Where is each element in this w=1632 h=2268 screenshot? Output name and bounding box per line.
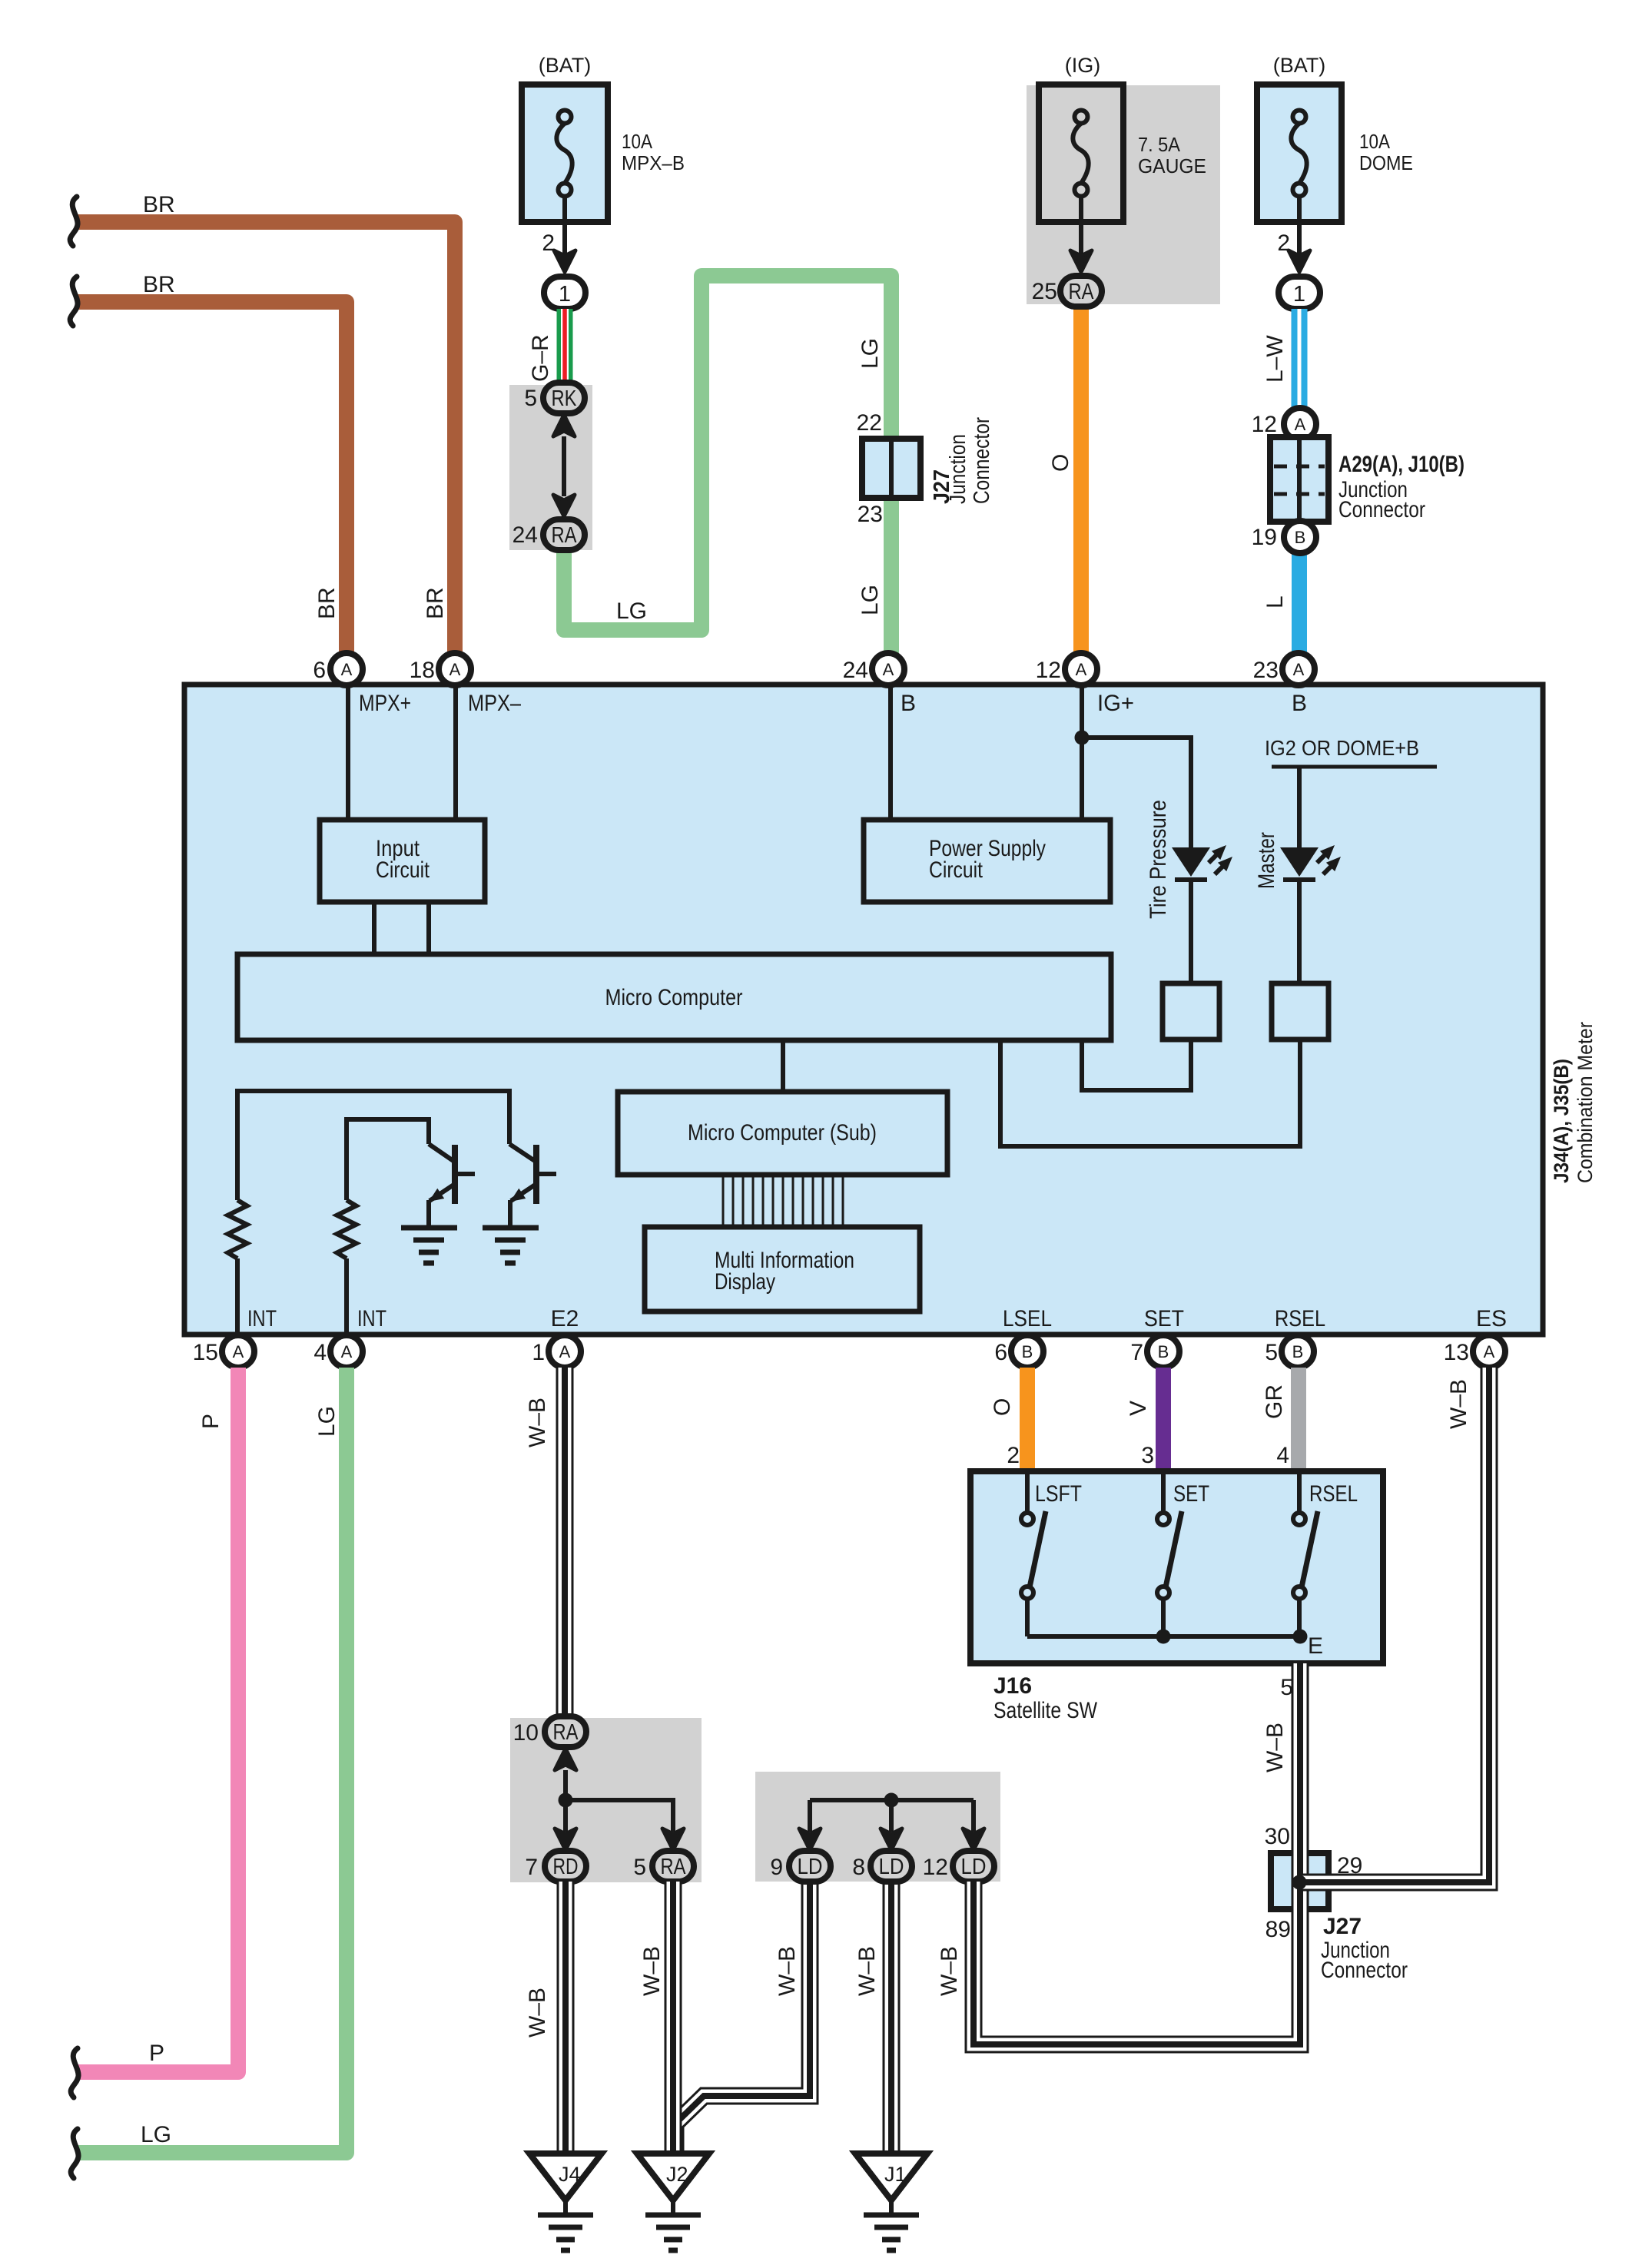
junction dot SET bus bbox=[1156, 1630, 1171, 1644]
break symbol BR upper bbox=[70, 197, 78, 246]
svg-text:W–B: W–B bbox=[854, 1946, 880, 1996]
master driver square bbox=[1272, 983, 1328, 1039]
ground Q2 bbox=[483, 1228, 539, 1263]
svg-text:Connector: Connector bbox=[970, 417, 994, 504]
switch SET bbox=[1161, 1471, 1166, 1513]
wire to master LED bbox=[1297, 767, 1302, 847]
svg-text:IG2 OR DOME+B: IG2 OR DOME+B bbox=[1265, 736, 1419, 760]
wire W-B from pin 1 E2 bbox=[556, 1368, 574, 1719]
svg-text:25: 25 bbox=[1032, 279, 1057, 304]
svg-text:A: A bbox=[233, 1342, 244, 1361]
svg-text:INT: INT bbox=[357, 1306, 386, 1331]
wire LG from pin 4 bbox=[78, 1368, 347, 2153]
wire RA down to junction bbox=[563, 1770, 568, 1832]
svg-text:12: 12 bbox=[1252, 412, 1277, 437]
input circuit box bbox=[320, 820, 485, 902]
svg-text:L: L bbox=[1262, 595, 1288, 608]
svg-text:LG: LG bbox=[314, 1406, 340, 1437]
wire pin12 IG+ to power supply bbox=[1080, 685, 1084, 820]
svg-text:(IG): (IG) bbox=[1065, 54, 1101, 77]
arrow up to 10 RA bbox=[555, 1749, 576, 1770]
svg-text:5: 5 bbox=[1265, 1340, 1278, 1365]
break symbol BR lower bbox=[70, 277, 78, 326]
ground J1 bbox=[855, 2154, 927, 2250]
connector oval 8 LD bbox=[871, 1851, 912, 1882]
svg-text:RSEL: RSEL bbox=[1309, 1481, 1358, 1507]
svg-text:RA: RA bbox=[661, 1855, 687, 1879]
connector arrow dome bbox=[1289, 250, 1310, 272]
svg-text:5: 5 bbox=[524, 386, 537, 411]
svg-text:MPX+: MPX+ bbox=[359, 691, 411, 716]
svg-text:W–B: W–B bbox=[1446, 1379, 1471, 1429]
svg-text:Tire Pressure: Tire Pressure bbox=[1146, 800, 1171, 919]
svg-text:J2: J2 bbox=[666, 2163, 688, 2186]
svg-text:A: A bbox=[449, 660, 461, 679]
svg-text:1: 1 bbox=[532, 1340, 545, 1365]
svg-text:LG: LG bbox=[141, 2122, 171, 2147]
svg-text:1: 1 bbox=[559, 282, 571, 307]
svg-text:10A: 10A bbox=[622, 130, 653, 153]
svg-text:4: 4 bbox=[313, 1340, 327, 1365]
svg-text:MPX–B: MPX–B bbox=[622, 151, 685, 174]
wire fuse to 25RA bbox=[1079, 197, 1083, 255]
svg-text:SET: SET bbox=[1173, 1481, 1209, 1507]
ground J2 bbox=[637, 2154, 709, 2250]
pin 13 A bottom bbox=[1473, 1335, 1505, 1368]
wire tire square to micro computer bbox=[1082, 1039, 1191, 1090]
svg-text:4: 4 bbox=[1276, 1443, 1289, 1468]
wire LED to tire square bbox=[1189, 880, 1193, 983]
wire O pin 6B to satellite bbox=[1020, 1368, 1035, 1471]
svg-text:LD: LD bbox=[879, 1855, 904, 1879]
ground Q1 bbox=[401, 1228, 457, 1263]
svg-text:P: P bbox=[198, 1414, 224, 1429]
arrow down to 9 LD bbox=[799, 1829, 821, 1850]
svg-text:A: A bbox=[1295, 415, 1306, 434]
svg-text:A: A bbox=[883, 660, 894, 679]
connector oval 10 RA bbox=[545, 1716, 586, 1747]
svg-text:13: 13 bbox=[1444, 1340, 1469, 1365]
svg-text:A: A bbox=[341, 1342, 353, 1361]
pin 7 B bottom bbox=[1147, 1335, 1179, 1368]
svg-text:12: 12 bbox=[1036, 658, 1061, 683]
bus hatch lines bbox=[723, 1175, 843, 1227]
svg-text:Display: Display bbox=[715, 1269, 775, 1295]
svg-text:23: 23 bbox=[1253, 658, 1279, 683]
svg-text:23: 23 bbox=[857, 502, 883, 527]
wire master square to micro computer bbox=[1000, 1039, 1300, 1146]
shaded harness area (RA/RD/RA connector) bbox=[510, 1718, 702, 1882]
LD bus line bbox=[810, 1798, 974, 1802]
svg-text:DOME: DOME bbox=[1359, 151, 1413, 174]
svg-text:J4: J4 bbox=[559, 2163, 581, 2186]
svg-text:W–B: W–B bbox=[775, 1946, 800, 1996]
svg-text:RK: RK bbox=[552, 386, 578, 411]
svg-text:W–B: W–B bbox=[639, 1946, 665, 1996]
svg-text:J27: J27 bbox=[1323, 1914, 1362, 1939]
svg-text:LD: LD bbox=[798, 1855, 823, 1879]
fuse 10A MPX-B bbox=[522, 85, 608, 222]
svg-text:A29(A), J10(B): A29(A), J10(B) bbox=[1338, 452, 1464, 477]
wire resistor2 loop to transistor1 bbox=[347, 1119, 429, 1200]
svg-text:INT: INT bbox=[247, 1306, 277, 1331]
wire pin18 to input circuit bbox=[453, 685, 458, 820]
pin 6 A top bbox=[330, 653, 363, 685]
wire to 9 LD bbox=[808, 1800, 812, 1832]
pin 5 B bottom bbox=[1282, 1335, 1314, 1368]
LED tire pressure bbox=[1172, 841, 1237, 880]
transistor Q1 bbox=[429, 1144, 475, 1204]
svg-text:RA: RA bbox=[552, 523, 578, 548]
wire W-B RA to J2 ground bbox=[665, 1882, 682, 2154]
svg-text:B: B bbox=[1292, 1342, 1304, 1361]
fuse 10A DOME bbox=[1257, 85, 1342, 222]
pin circle 12 A bbox=[1284, 408, 1316, 440]
wire fuse to connector 1 dome bbox=[1297, 197, 1302, 255]
svg-text:V: V bbox=[1126, 1401, 1151, 1416]
shaded harness area (GAUGE fuse) bbox=[1027, 85, 1220, 304]
svg-text:29: 29 bbox=[1337, 1853, 1362, 1878]
connector oval 7 RD bbox=[545, 1851, 586, 1882]
arrow up to RK bbox=[553, 415, 575, 436]
wire P from pin 15 bbox=[78, 1368, 238, 2072]
svg-text:89: 89 bbox=[1265, 1917, 1291, 1942]
wire L-W bbox=[1292, 309, 1308, 410]
svg-text:19: 19 bbox=[1252, 525, 1277, 550]
connector oval 1 dome bbox=[1279, 277, 1320, 309]
multi information display box bbox=[645, 1227, 920, 1311]
wire V pin 7B to satellite bbox=[1156, 1368, 1171, 1471]
svg-text:22: 22 bbox=[857, 410, 882, 436]
svg-text:9: 9 bbox=[770, 1855, 783, 1880]
resistor R2 bbox=[337, 1200, 357, 1258]
svg-text:(BAT): (BAT) bbox=[539, 54, 592, 77]
junction dot IG+ bbox=[1075, 731, 1090, 745]
connector oval 1 bbox=[544, 277, 585, 309]
wire fuse to connector 1 bbox=[562, 197, 567, 255]
svg-text:7: 7 bbox=[1130, 1340, 1143, 1365]
svg-text:3: 3 bbox=[1141, 1443, 1154, 1468]
svg-text:6: 6 bbox=[313, 658, 326, 683]
svg-text:LSFT: LSFT bbox=[1035, 1481, 1082, 1507]
svg-text:18: 18 bbox=[410, 658, 435, 683]
pin 12 A top bbox=[1065, 653, 1097, 685]
wire W-B 8LD to J1 ground bbox=[883, 1882, 901, 2154]
svg-text:LG: LG bbox=[616, 598, 647, 624]
svg-text:1: 1 bbox=[1293, 282, 1305, 307]
svg-text:12: 12 bbox=[923, 1855, 948, 1880]
pin 18 A top bbox=[439, 653, 471, 685]
pin 15 A bottom bbox=[222, 1335, 254, 1368]
wire LG from 24RA loop to pin 24A bbox=[564, 276, 891, 653]
svg-text:W–B: W–B bbox=[937, 1946, 962, 1996]
svg-text:E2: E2 bbox=[551, 1306, 579, 1331]
wire R2 to pin 4 bbox=[344, 1258, 349, 1335]
shaded harness area (LD connectors) bbox=[755, 1772, 1000, 1882]
micro computer box bbox=[237, 954, 1111, 1040]
wire branch to tire pressure LED bbox=[1082, 738, 1191, 847]
wire W-B RD to J4 ground bbox=[557, 1882, 575, 2154]
ground J4 bbox=[529, 2154, 602, 2250]
pin 4 A bottom bbox=[330, 1335, 363, 1368]
arrow down to 7 RD bbox=[555, 1829, 576, 1850]
wire branch to 5 RA bbox=[566, 1800, 673, 1832]
svg-text:A: A bbox=[341, 660, 353, 679]
tire driver square bbox=[1163, 983, 1219, 1039]
shaded harness area (RK/RA connector) bbox=[509, 385, 592, 550]
arrow down to 25RA bbox=[1070, 250, 1092, 272]
pin 23 A top bbox=[1282, 653, 1315, 685]
svg-text:SET: SET bbox=[1144, 1306, 1184, 1331]
combination meter box bbox=[184, 685, 1543, 1335]
svg-text:10: 10 bbox=[513, 1720, 539, 1746]
svg-text:O: O bbox=[990, 1398, 1015, 1416]
svg-text:Combination Meter: Combination Meter bbox=[1574, 1022, 1597, 1183]
power supply circuit box bbox=[864, 820, 1110, 902]
svg-text:BR: BR bbox=[314, 587, 340, 619]
svg-text:24: 24 bbox=[843, 658, 868, 683]
svg-text:Satellite SW: Satellite SW bbox=[993, 1698, 1098, 1723]
svg-text:LD: LD bbox=[961, 1855, 987, 1879]
svg-text:10A: 10A bbox=[1359, 130, 1391, 153]
svg-text:LG: LG bbox=[857, 585, 883, 615]
svg-text:RA: RA bbox=[1069, 280, 1095, 304]
arrow down to 12 LD bbox=[963, 1829, 984, 1850]
junction connector A29/J10 bbox=[1270, 437, 1328, 522]
svg-text:7: 7 bbox=[525, 1855, 538, 1880]
junction connector J27 top bbox=[862, 439, 920, 498]
svg-text:P: P bbox=[149, 2041, 164, 2066]
svg-text:A: A bbox=[1484, 1342, 1495, 1361]
svg-text:BR: BR bbox=[143, 192, 175, 217]
svg-text:15: 15 bbox=[193, 1340, 218, 1365]
wire micro computer to sub bbox=[781, 1040, 785, 1092]
svg-text:E: E bbox=[1308, 1633, 1323, 1659]
pin 6 B bottom bbox=[1011, 1335, 1043, 1368]
wire G-R bbox=[557, 309, 573, 385]
svg-text:Micro Computer (Sub): Micro Computer (Sub) bbox=[688, 1120, 877, 1146]
break symbol P bbox=[71, 2048, 78, 2097]
transistor Q2 bbox=[509, 1144, 556, 1204]
junction dot J27 bbox=[1292, 1875, 1307, 1890]
connector oval 9 LD bbox=[789, 1851, 831, 1882]
svg-text:RD: RD bbox=[553, 1855, 579, 1879]
svg-text:8: 8 bbox=[852, 1855, 865, 1880]
svg-text:W–B: W–B bbox=[525, 1988, 550, 2038]
resistor R1 bbox=[228, 1200, 247, 1258]
svg-text:J1: J1 bbox=[884, 2163, 907, 2186]
wire RK to RA bbox=[562, 436, 566, 496]
junction dot LD bus bbox=[884, 1793, 899, 1808]
svg-text:A: A bbox=[559, 1342, 571, 1361]
svg-text:2: 2 bbox=[1007, 1443, 1020, 1468]
arrow down to RA bbox=[553, 495, 575, 516]
connector oval 5 RK bbox=[543, 383, 585, 413]
wire W-B 9LD merge to J2 bbox=[675, 1882, 810, 2154]
switch RSEL bbox=[1297, 1471, 1302, 1513]
svg-text:A: A bbox=[1293, 660, 1305, 679]
svg-text:W–B: W–B bbox=[1262, 1723, 1288, 1772]
satellite switch box J16 bbox=[970, 1471, 1383, 1663]
micro computer sub box bbox=[618, 1092, 947, 1175]
wires input circuit to micro computer bbox=[372, 902, 376, 954]
switch common bus bbox=[1027, 1634, 1300, 1639]
wire LED to master square bbox=[1297, 880, 1302, 983]
arrow down to 8 LD bbox=[881, 1829, 902, 1850]
svg-text:O: O bbox=[1048, 454, 1073, 472]
svg-text:B: B bbox=[901, 691, 916, 716]
switch LSFT bbox=[1025, 1471, 1030, 1513]
svg-text:BR: BR bbox=[423, 587, 448, 619]
svg-text:RA: RA bbox=[553, 1720, 579, 1745]
fuse 7.5A GAUGE bbox=[1039, 85, 1123, 222]
wire resistor1 loop to transistor2 bbox=[237, 1091, 509, 1200]
wire O from gauge RA to pin 12A bbox=[1073, 305, 1089, 653]
LED master bbox=[1280, 841, 1345, 880]
svg-text:B: B bbox=[1158, 1342, 1169, 1361]
wire L from junction B to pin 23A bbox=[1292, 551, 1307, 653]
svg-text:Micro Computer: Micro Computer bbox=[605, 985, 743, 1010]
junction connector J27 bottom bbox=[1271, 1853, 1328, 1909]
junction dot bbox=[559, 1793, 573, 1808]
wire R1 to pin 15 bbox=[235, 1258, 240, 1335]
svg-text:GR: GR bbox=[1262, 1384, 1287, 1419]
svg-text:LSEL: LSEL bbox=[1003, 1306, 1052, 1331]
svg-text:Circuit: Circuit bbox=[376, 857, 430, 883]
svg-text:B: B bbox=[1292, 691, 1307, 716]
pin 24 A top bbox=[872, 653, 904, 685]
junction dot E bus bbox=[1293, 1630, 1308, 1644]
svg-text:(BAT): (BAT) bbox=[1273, 54, 1326, 77]
connector oval 5 RA bbox=[652, 1851, 694, 1882]
wire pin24 B to power supply bbox=[888, 685, 893, 820]
svg-text:7. 5A: 7. 5A bbox=[1138, 133, 1181, 156]
svg-text:BR: BR bbox=[143, 272, 175, 297]
pin circle 19 B bbox=[1284, 521, 1316, 553]
svg-text:B: B bbox=[1022, 1342, 1033, 1361]
svg-text:5: 5 bbox=[1280, 1675, 1293, 1700]
wire W-B ES pin 13 to J27 bbox=[1300, 1368, 1489, 1882]
svg-text:IG+: IG+ bbox=[1097, 691, 1134, 716]
svg-text:MPX–: MPX– bbox=[468, 691, 521, 716]
svg-text:30: 30 bbox=[1265, 1824, 1290, 1849]
svg-text:24: 24 bbox=[512, 522, 538, 548]
svg-text:Junction: Junction bbox=[946, 434, 970, 504]
svg-text:6: 6 bbox=[994, 1340, 1007, 1365]
wire GR pin 5B to satellite bbox=[1291, 1368, 1306, 1471]
svg-text:ES: ES bbox=[1476, 1306, 1507, 1331]
break symbol LG bbox=[71, 2129, 78, 2178]
wire pin6 to input circuit bbox=[346, 685, 350, 820]
net line IG2 OR DOME+B bbox=[1272, 765, 1437, 769]
connector oval 12 LD bbox=[953, 1851, 994, 1882]
wire to 12 LD bbox=[971, 1800, 976, 1832]
wire W-B satellite E to 12 LD bbox=[974, 1663, 1300, 2044]
svg-text:J34(A), J35(B): J34(A), J35(B) bbox=[1550, 1059, 1573, 1183]
wire BR (MPX-) lower bbox=[78, 302, 347, 653]
svg-text:B: B bbox=[1295, 528, 1306, 547]
svg-text:Connector: Connector bbox=[1338, 497, 1425, 522]
svg-text:L–W: L–W bbox=[1262, 335, 1288, 383]
svg-text:Circuit: Circuit bbox=[929, 857, 984, 883]
svg-text:Master: Master bbox=[1254, 832, 1279, 889]
svg-text:W–B: W–B bbox=[525, 1398, 550, 1447]
svg-text:LG: LG bbox=[857, 338, 883, 369]
svg-text:5: 5 bbox=[633, 1855, 646, 1880]
wire BR (MPX+) upper bbox=[78, 222, 455, 653]
connector oval 24 RA bbox=[543, 519, 585, 550]
svg-text:GAUGE: GAUGE bbox=[1138, 154, 1206, 177]
svg-text:J16: J16 bbox=[993, 1673, 1032, 1699]
connector oval 25 RA bbox=[1060, 276, 1102, 307]
arrow down to 5 RA bbox=[662, 1829, 684, 1850]
svg-text:G–R: G–R bbox=[528, 334, 553, 382]
connector arrow bbox=[554, 250, 576, 272]
svg-text:RSEL: RSEL bbox=[1275, 1306, 1325, 1331]
wire to 8 LD bbox=[889, 1800, 894, 1832]
svg-text:Connector: Connector bbox=[1321, 1958, 1408, 1983]
svg-text:A: A bbox=[1076, 660, 1087, 679]
pin 1 A bottom bbox=[549, 1335, 581, 1368]
